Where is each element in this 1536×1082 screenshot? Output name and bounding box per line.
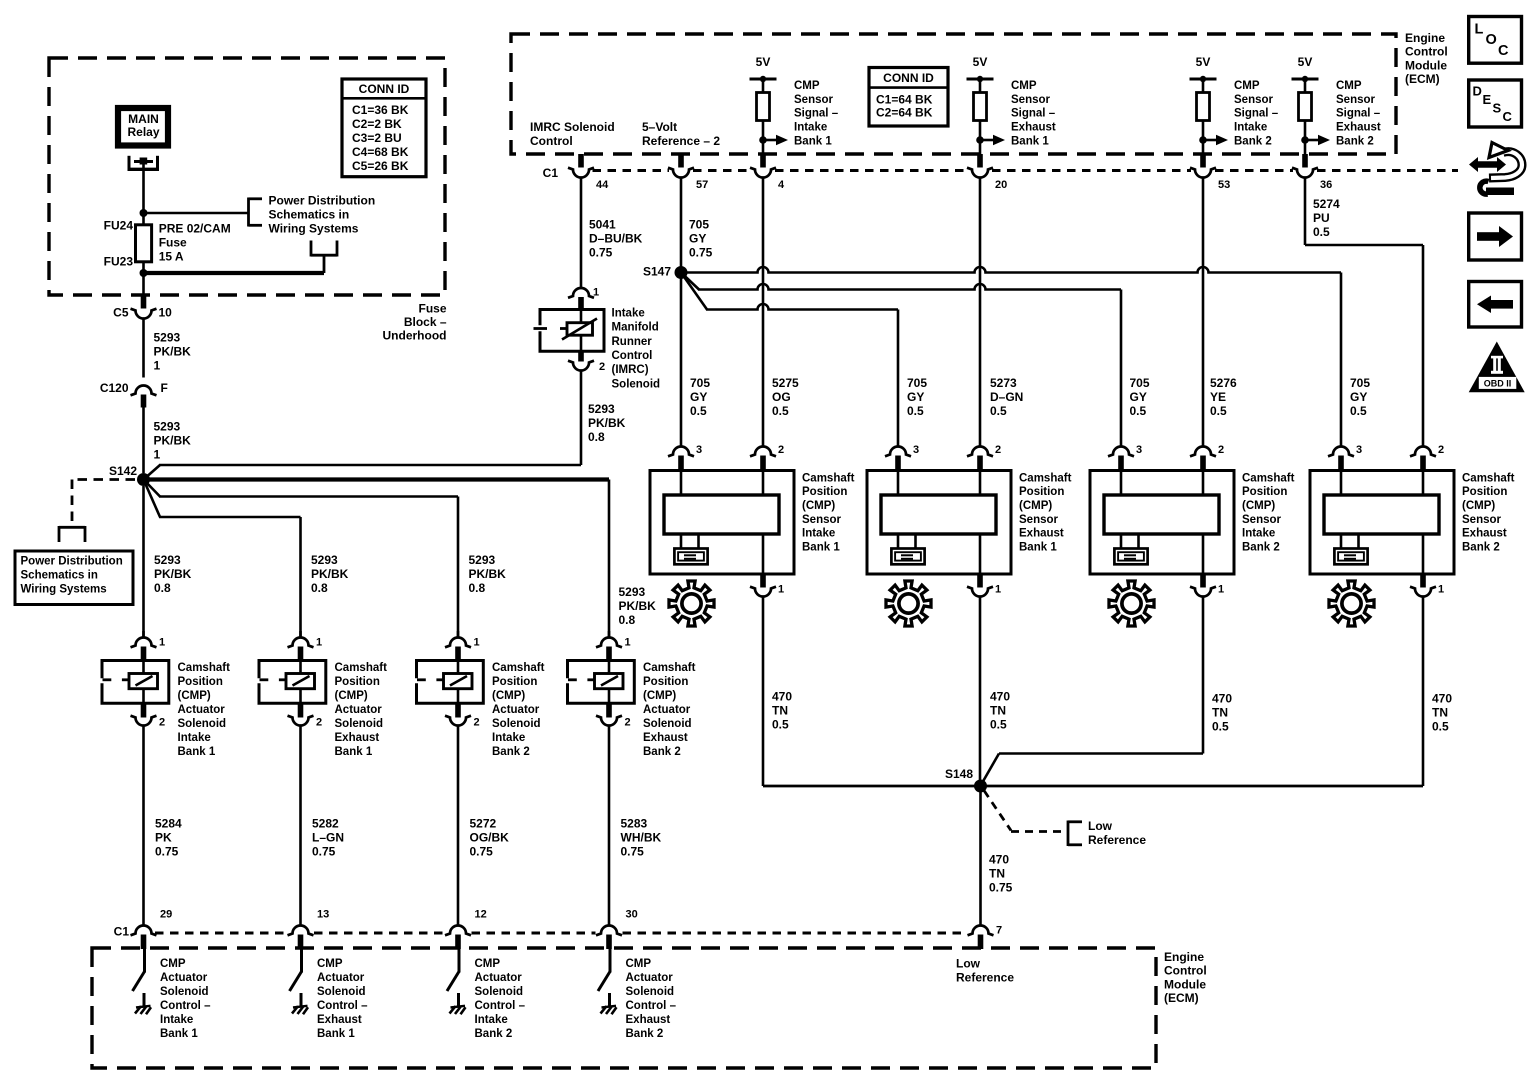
svg-text:0.5: 0.5 [1350, 404, 1367, 418]
svg-text:Intake: Intake [475, 1014, 508, 1026]
svg-text:(CMP): (CMP) [335, 690, 368, 702]
svg-text:36: 36 [1320, 179, 1332, 191]
svg-text:Exhaust: Exhaust [1011, 122, 1056, 134]
svg-text:0.5: 0.5 [1212, 719, 1229, 733]
svg-text:5284: 5284 [155, 816, 182, 830]
svg-text:30: 30 [626, 909, 638, 921]
svg-text:D–BU/BK: D–BU/BK [589, 231, 643, 245]
svg-text:TN: TN [1432, 705, 1448, 719]
svg-text:Bank 1: Bank 1 [794, 136, 832, 148]
svg-text:Control: Control [1405, 45, 1448, 59]
svg-text:Sensor: Sensor [794, 94, 834, 106]
svg-text:(CMP): (CMP) [178, 690, 211, 702]
svg-text:Module: Module [1405, 58, 1447, 72]
svg-text:Schematics in: Schematics in [21, 569, 98, 581]
svg-text:0.5: 0.5 [1130, 404, 1147, 418]
svg-text:29: 29 [160, 909, 172, 921]
svg-text:Camshaft: Camshaft [492, 662, 545, 674]
svg-text:F: F [161, 381, 168, 395]
svg-text:Position: Position [178, 676, 223, 688]
svg-text:Relay: Relay [127, 125, 159, 139]
svg-text:1: 1 [593, 287, 599, 299]
svg-text:L: L [1475, 22, 1484, 38]
svg-text:Bank 1: Bank 1 [317, 1028, 355, 1040]
svg-text:IMRC Solenoid: IMRC Solenoid [530, 120, 615, 134]
svg-text:C: C [1498, 43, 1509, 59]
svg-text:0.5: 0.5 [990, 717, 1007, 731]
svg-text:C: C [1503, 109, 1513, 124]
svg-text:1: 1 [474, 637, 480, 649]
svg-text:5273: 5273 [990, 376, 1017, 390]
svg-text:Position: Position [1462, 486, 1507, 498]
svg-text:CMP: CMP [1011, 80, 1037, 92]
svg-text:0.5: 0.5 [772, 404, 789, 418]
svg-text:3: 3 [696, 444, 702, 456]
svg-text:0.75: 0.75 [470, 844, 494, 858]
svg-text:(ECM): (ECM) [1405, 72, 1440, 86]
svg-text:5293: 5293 [588, 402, 615, 416]
svg-text:C1=36 BK: C1=36 BK [352, 103, 409, 117]
svg-text:Bank 2: Bank 2 [1234, 136, 1272, 148]
svg-text:L–GN: L–GN [312, 830, 344, 844]
svg-text:FU23: FU23 [104, 254, 134, 268]
svg-text:Camshaft: Camshaft [335, 662, 388, 674]
svg-text:Reference – 2: Reference – 2 [642, 134, 720, 148]
svg-text:0.5: 0.5 [690, 404, 707, 418]
svg-text:Exhaust: Exhaust [1336, 122, 1381, 134]
svg-text:2: 2 [159, 717, 165, 729]
svg-text:0.5: 0.5 [772, 717, 789, 731]
svg-text:Solenoid: Solenoid [335, 718, 384, 730]
svg-text:5V: 5V [973, 55, 988, 69]
svg-text:1: 1 [154, 447, 161, 461]
svg-text:Bank 2: Bank 2 [1462, 541, 1500, 553]
svg-text:Solenoid: Solenoid [178, 718, 227, 730]
svg-text:10: 10 [159, 305, 173, 319]
svg-text:3: 3 [1136, 444, 1142, 456]
svg-text:GY: GY [1350, 390, 1367, 404]
svg-text:Exhaust: Exhaust [335, 732, 380, 744]
svg-text:13: 13 [317, 909, 329, 921]
svg-text:Solenoid: Solenoid [160, 986, 209, 998]
svg-text:CONN ID: CONN ID [883, 71, 934, 85]
svg-text:Sensor: Sensor [1242, 514, 1282, 526]
svg-text:Actuator: Actuator [475, 972, 523, 984]
svg-text:Low: Low [956, 956, 981, 970]
svg-text:CMP: CMP [317, 958, 343, 970]
svg-text:TN: TN [990, 703, 1006, 717]
svg-text:Intake: Intake [160, 1014, 193, 1026]
svg-text:C1=64 BK: C1=64 BK [876, 92, 933, 106]
svg-text:CMP: CMP [1336, 80, 1362, 92]
svg-text:5293: 5293 [154, 419, 181, 433]
svg-text:1: 1 [1218, 584, 1224, 596]
svg-text:Runner: Runner [612, 336, 653, 348]
svg-text:Reference: Reference [1088, 833, 1146, 847]
svg-text:Bank 2: Bank 2 [1336, 136, 1374, 148]
svg-text:Power Distribution: Power Distribution [269, 193, 376, 207]
svg-text:Camshaft: Camshaft [643, 662, 696, 674]
svg-text:PK/BK: PK/BK [588, 416, 626, 430]
svg-text:1: 1 [154, 358, 161, 372]
svg-text:Solenoid: Solenoid [492, 718, 541, 730]
svg-text:0.75: 0.75 [989, 880, 1013, 894]
svg-text:Sensor: Sensor [1462, 514, 1502, 526]
svg-text:1: 1 [995, 584, 1001, 596]
svg-text:Bank 1: Bank 1 [802, 541, 840, 553]
svg-text:(CMP): (CMP) [1242, 500, 1275, 512]
svg-text:4: 4 [778, 179, 785, 191]
svg-text:2: 2 [474, 717, 480, 729]
svg-text:Solenoid: Solenoid [626, 986, 675, 998]
svg-text:Control –: Control – [160, 1000, 211, 1012]
svg-text:470: 470 [772, 689, 792, 703]
svg-text:(CMP): (CMP) [643, 690, 676, 702]
svg-text:2: 2 [1438, 444, 1444, 456]
svg-text:Reference: Reference [956, 970, 1014, 984]
svg-text:1: 1 [1438, 584, 1444, 596]
svg-text:44: 44 [596, 179, 609, 191]
svg-text:TN: TN [772, 703, 788, 717]
svg-text:Solenoid: Solenoid [317, 986, 366, 998]
svg-text:Sensor: Sensor [1011, 94, 1051, 106]
svg-text:Position: Position [802, 486, 847, 498]
svg-text:Bank 1: Bank 1 [178, 746, 216, 758]
svg-text:Bank 2: Bank 2 [643, 746, 681, 758]
svg-text:YE: YE [1210, 390, 1226, 404]
svg-text:E: E [1483, 92, 1492, 107]
svg-text:(ECM): (ECM) [1164, 991, 1199, 1005]
svg-text:Bank 2: Bank 2 [475, 1028, 513, 1040]
svg-text:0.75: 0.75 [621, 844, 645, 858]
svg-text:2: 2 [1218, 444, 1224, 456]
svg-text:Actuator: Actuator [643, 704, 691, 716]
svg-text:Exhaust: Exhaust [317, 1014, 362, 1026]
svg-text:Signal –: Signal – [1336, 108, 1381, 120]
svg-text:Actuator: Actuator [317, 972, 365, 984]
svg-text:PK/BK: PK/BK [619, 599, 657, 613]
svg-text:5293: 5293 [619, 585, 646, 599]
svg-text:53: 53 [1218, 179, 1230, 191]
svg-text:S142: S142 [109, 464, 137, 478]
svg-text:FU24: FU24 [104, 218, 134, 232]
svg-text:C3=2 BU: C3=2 BU [352, 131, 402, 145]
svg-text:Fuse: Fuse [418, 301, 446, 315]
svg-text:S147: S147 [643, 264, 671, 278]
svg-text:PK/BK: PK/BK [311, 567, 349, 581]
svg-text:(CMP): (CMP) [802, 500, 835, 512]
svg-text:(CMP): (CMP) [492, 690, 525, 702]
svg-text:0.5: 0.5 [990, 404, 1007, 418]
svg-text:D: D [1473, 84, 1482, 99]
svg-text:Schematics in: Schematics in [269, 207, 350, 221]
svg-text:Block –: Block – [404, 315, 447, 329]
svg-text:Bank 2: Bank 2 [492, 746, 530, 758]
svg-text:Intake: Intake [492, 732, 525, 744]
svg-text:Intake: Intake [794, 122, 827, 134]
svg-text:GY: GY [1130, 390, 1147, 404]
svg-text:Bank 2: Bank 2 [626, 1028, 664, 1040]
svg-text:5041: 5041 [589, 217, 616, 231]
svg-text:470: 470 [1212, 691, 1232, 705]
svg-text:5293: 5293 [154, 330, 181, 344]
svg-text:7: 7 [996, 925, 1002, 937]
svg-text:0.8: 0.8 [469, 581, 486, 595]
svg-text:20: 20 [995, 179, 1007, 191]
svg-text:Actuator: Actuator [335, 704, 383, 716]
svg-text:Position: Position [1242, 486, 1287, 498]
svg-text:2: 2 [316, 717, 322, 729]
svg-text:GY: GY [689, 231, 706, 245]
svg-text:0.75: 0.75 [689, 245, 713, 259]
svg-text:1: 1 [316, 637, 322, 649]
svg-text:Control: Control [530, 134, 573, 148]
svg-text:Bank 1: Bank 1 [335, 746, 373, 758]
svg-text:Intake: Intake [178, 732, 211, 744]
svg-text:D–GN: D–GN [990, 390, 1023, 404]
svg-text:5V: 5V [1196, 55, 1211, 69]
svg-text:5293: 5293 [469, 553, 496, 567]
svg-text:C1: C1 [114, 924, 130, 938]
svg-text:Position: Position [492, 676, 537, 688]
svg-text:Sensor: Sensor [1336, 94, 1376, 106]
svg-text:Exhaust: Exhaust [1462, 528, 1507, 540]
svg-text:PK/BK: PK/BK [469, 567, 507, 581]
svg-text:0.5: 0.5 [1210, 404, 1227, 418]
svg-text:Control: Control [612, 350, 653, 362]
svg-text:Bank 1: Bank 1 [1011, 136, 1049, 148]
svg-text:5272: 5272 [470, 816, 497, 830]
svg-text:PK/BK: PK/BK [154, 567, 192, 581]
svg-text:Solenoid: Solenoid [475, 986, 524, 998]
svg-text:Control –: Control – [475, 1000, 526, 1012]
svg-text:OG/BK: OG/BK [470, 830, 510, 844]
svg-text:CMP: CMP [160, 958, 186, 970]
svg-text:12: 12 [475, 909, 487, 921]
svg-text:C1: C1 [543, 166, 559, 180]
svg-text:470: 470 [989, 852, 1009, 866]
svg-text:5V: 5V [1298, 55, 1313, 69]
svg-text:Position: Position [335, 676, 380, 688]
svg-text:0.5: 0.5 [907, 404, 924, 418]
svg-text:PK/BK: PK/BK [154, 433, 192, 447]
svg-text:Solenoid: Solenoid [612, 378, 661, 390]
svg-text:Bank 1: Bank 1 [1019, 541, 1057, 553]
svg-text:Camshaft: Camshaft [1019, 472, 1072, 484]
svg-text:Bank 2: Bank 2 [1242, 541, 1280, 553]
svg-text:5293: 5293 [154, 553, 181, 567]
svg-text:(IMRC): (IMRC) [612, 364, 649, 376]
svg-text:Sensor: Sensor [802, 514, 842, 526]
svg-text:Camshaft: Camshaft [1242, 472, 1295, 484]
svg-text:0.75: 0.75 [155, 844, 179, 858]
svg-text:Camshaft: Camshaft [802, 472, 855, 484]
svg-text:5274: 5274 [1313, 197, 1340, 211]
svg-text:Solenoid: Solenoid [643, 718, 692, 730]
svg-text:Intake: Intake [612, 307, 645, 319]
svg-text:2: 2 [995, 444, 1001, 456]
svg-text:705: 705 [907, 376, 927, 390]
svg-text:CMP: CMP [475, 958, 501, 970]
svg-text:0.8: 0.8 [311, 581, 328, 595]
svg-text:Position: Position [1019, 486, 1064, 498]
svg-text:TN: TN [1212, 705, 1228, 719]
svg-text:Sensor: Sensor [1234, 94, 1274, 106]
svg-text:5282: 5282 [312, 816, 339, 830]
svg-text:PK/BK: PK/BK [154, 344, 192, 358]
svg-text:2: 2 [599, 361, 605, 373]
svg-text:Manifold: Manifold [612, 322, 659, 334]
svg-text:0.8: 0.8 [619, 613, 636, 627]
svg-text:C2=64 BK: C2=64 BK [876, 105, 933, 119]
svg-text:Camshaft: Camshaft [1462, 472, 1515, 484]
svg-text:705: 705 [1130, 376, 1150, 390]
svg-text:S148: S148 [945, 767, 973, 781]
svg-text:Control –: Control – [626, 1000, 677, 1012]
svg-text:(CMP): (CMP) [1019, 500, 1052, 512]
svg-text:470: 470 [990, 689, 1010, 703]
svg-text:1: 1 [159, 637, 165, 649]
svg-text:Sensor: Sensor [1019, 514, 1059, 526]
svg-text:0.8: 0.8 [588, 430, 605, 444]
svg-text:705: 705 [1350, 376, 1370, 390]
svg-text:GY: GY [690, 390, 707, 404]
svg-text:Wiring Systems: Wiring Systems [21, 583, 107, 595]
svg-text:O: O [1486, 32, 1497, 48]
svg-text:5283: 5283 [621, 816, 648, 830]
svg-text:Wiring Systems: Wiring Systems [269, 221, 359, 235]
svg-text:705: 705 [689, 217, 709, 231]
svg-text:57: 57 [696, 179, 708, 191]
svg-text:5–Volt: 5–Volt [642, 120, 677, 134]
svg-text:CMP: CMP [794, 80, 820, 92]
svg-text:Camshaft: Camshaft [178, 662, 231, 674]
svg-text:Intake: Intake [802, 528, 835, 540]
svg-text:C2=2 BK: C2=2 BK [352, 117, 402, 131]
svg-text:PK: PK [155, 830, 172, 844]
svg-text:705: 705 [690, 376, 710, 390]
svg-text:5275: 5275 [772, 376, 799, 390]
svg-text:3: 3 [913, 444, 919, 456]
svg-text:5V: 5V [756, 55, 771, 69]
svg-text:Fuse: Fuse [159, 235, 187, 249]
svg-text:0.75: 0.75 [589, 245, 613, 259]
svg-text:Actuator: Actuator [492, 704, 540, 716]
svg-text:Engine: Engine [1164, 950, 1204, 964]
svg-text:Intake: Intake [1242, 528, 1275, 540]
svg-text:Signal –: Signal – [794, 108, 839, 120]
svg-text:Bank 1: Bank 1 [160, 1028, 198, 1040]
svg-text:S: S [1493, 101, 1502, 116]
svg-text:MAIN: MAIN [128, 112, 159, 126]
svg-text:Underhood: Underhood [383, 329, 447, 343]
svg-text:Module: Module [1164, 977, 1206, 991]
svg-text:Low: Low [1088, 819, 1113, 833]
svg-text:Exhaust: Exhaust [626, 1014, 671, 1026]
svg-text:Actuator: Actuator [160, 972, 208, 984]
svg-text:15 A: 15 A [159, 249, 184, 263]
svg-text:5293: 5293 [311, 553, 338, 567]
svg-text:OG: OG [772, 390, 791, 404]
svg-text:1: 1 [778, 584, 784, 596]
svg-text:470: 470 [1432, 691, 1452, 705]
svg-text:Control –: Control – [317, 1000, 368, 1012]
svg-text:C120: C120 [100, 381, 129, 395]
svg-text:Signal –: Signal – [1011, 108, 1056, 120]
svg-text:(CMP): (CMP) [1462, 500, 1495, 512]
svg-text:0.75: 0.75 [312, 844, 336, 858]
svg-text:C5: C5 [113, 305, 129, 319]
svg-text:PU: PU [1313, 211, 1330, 225]
svg-text:CONN ID: CONN ID [359, 82, 410, 96]
svg-text:C4=68 BK: C4=68 BK [352, 145, 409, 159]
svg-text:3: 3 [1356, 444, 1362, 456]
svg-text:Signal –: Signal – [1234, 108, 1279, 120]
svg-text:1: 1 [625, 637, 631, 649]
svg-text:Exhaust: Exhaust [1019, 528, 1064, 540]
svg-text:Actuator: Actuator [178, 704, 226, 716]
svg-text:2: 2 [625, 717, 631, 729]
svg-text:PRE 02/CAM: PRE 02/CAM [159, 221, 231, 235]
svg-text:CMP: CMP [626, 958, 652, 970]
svg-text:Position: Position [643, 676, 688, 688]
svg-text:2: 2 [778, 444, 784, 456]
svg-text:0.5: 0.5 [1432, 719, 1449, 733]
svg-text:GY: GY [907, 390, 924, 404]
svg-text:5276: 5276 [1210, 376, 1237, 390]
svg-text:0.5: 0.5 [1313, 225, 1330, 239]
svg-text:Exhaust: Exhaust [643, 732, 688, 744]
svg-text:Control: Control [1164, 964, 1207, 978]
svg-text:Actuator: Actuator [626, 972, 674, 984]
svg-text:Power Distribution: Power Distribution [21, 555, 123, 567]
svg-text:CMP: CMP [1234, 80, 1260, 92]
svg-text:WH/BK: WH/BK [621, 830, 662, 844]
svg-text:TN: TN [989, 866, 1005, 880]
svg-text:OBD II: OBD II [1484, 379, 1512, 389]
svg-text:0.8: 0.8 [154, 581, 171, 595]
svg-text:Engine: Engine [1405, 31, 1445, 45]
svg-text:Intake: Intake [1234, 122, 1267, 134]
svg-text:C5=26 BK: C5=26 BK [352, 159, 409, 173]
